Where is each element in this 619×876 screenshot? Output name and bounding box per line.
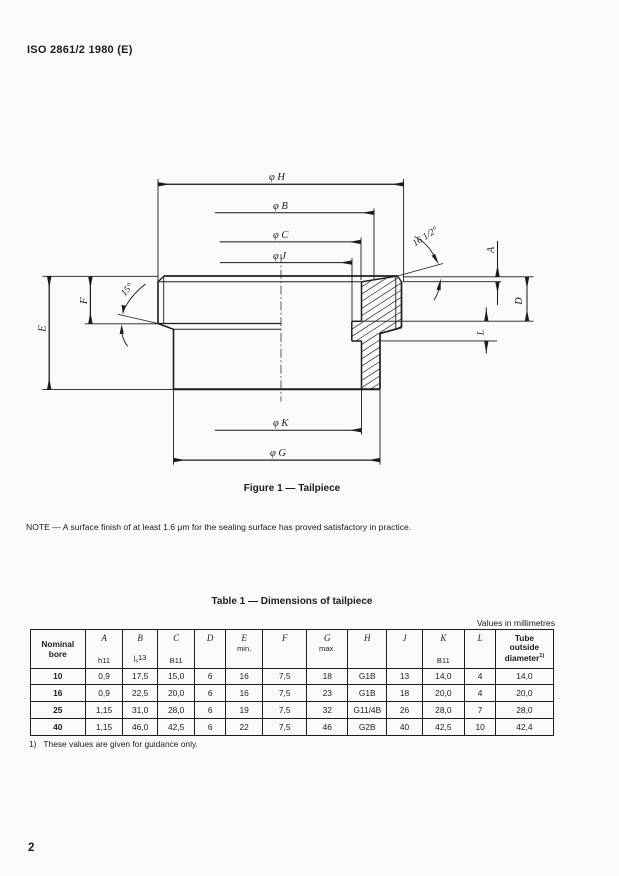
dimension phi G	[173, 390, 175, 465]
values in millimetres	[355, 618, 555, 628]
svg-text:F: F	[78, 297, 90, 305]
angle 15 deg	[118, 314, 158, 323]
svg-text:φ C: φ C	[273, 230, 289, 241]
dimension phi C	[360, 238, 362, 281]
footnote	[29, 739, 198, 749]
dimension phi K	[361, 389, 363, 434]
left top chamfer	[158, 276, 164, 282]
page number	[28, 842, 34, 854]
part top face	[164, 275, 398, 277]
figure caption	[0, 483, 584, 494]
section tube bore wall	[361, 341, 363, 389]
section seal cone face	[362, 276, 398, 282]
left crest edge	[157, 281, 159, 323]
dimension phi J	[351, 258, 353, 321]
section right crest edge	[401, 281, 403, 327]
svg-text:φ G: φ G	[270, 448, 286, 459]
svg-text:E: E	[37, 325, 49, 333]
page header	[27, 44, 133, 56]
F extension line	[85, 323, 158, 325]
svg-text:L: L	[477, 330, 487, 336]
figure drawing	[0, 0, 619, 560]
svg-text:φ K: φ K	[273, 418, 289, 429]
section right chamfer	[398, 276, 402, 282]
section tube outer wall	[379, 334, 381, 390]
dimension phi H	[157, 179, 159, 282]
svg-text:D: D	[514, 297, 525, 306]
section upper shoulder	[352, 320, 362, 322]
section lower shoulder	[352, 340, 362, 342]
left transition cone edge	[158, 324, 174, 330]
section bore wall	[361, 282, 363, 322]
svg-text:A: A	[486, 246, 497, 254]
angle 16 1/2 deg	[398, 264, 444, 277]
dimension E	[42, 275, 158, 277]
section middle bore wall	[351, 321, 353, 341]
section lower cone edge	[380, 328, 402, 334]
note	[26, 522, 411, 532]
cone base circle edge	[174, 328, 282, 330]
dimension D	[362, 320, 534, 322]
dimension A	[403, 276, 534, 278]
hatching of section	[330, 235, 420, 459]
section right thread root line	[395, 277, 397, 330]
svg-text:φ J: φ J	[273, 251, 287, 262]
dimension F	[89, 277, 91, 324]
tube left edge	[173, 329, 175, 389]
bottom edge	[174, 388, 381, 390]
table title	[0, 596, 584, 607]
dimension phi B	[373, 209, 375, 280]
chamfer base circle line	[158, 281, 364, 283]
dimension L	[380, 340, 497, 342]
svg-text:φ B: φ B	[273, 201, 288, 212]
left thread root line	[163, 276, 165, 324]
svg-text:φ H: φ H	[269, 172, 286, 183]
flange bottom edge	[158, 323, 281, 325]
centerline	[280, 254, 282, 402]
